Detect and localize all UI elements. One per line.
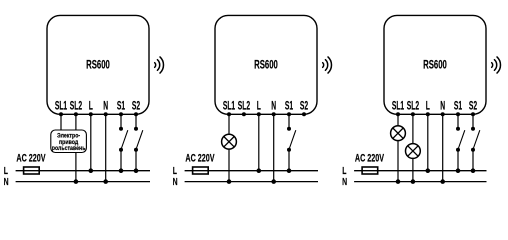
svg-text:S2: S2 xyxy=(300,98,308,111)
switch S1 blade (circuit 3) xyxy=(458,130,465,149)
junction S1/L bus (circuit 3) xyxy=(456,168,461,173)
junction S1/L bus (circuit 1) xyxy=(119,168,124,173)
svg-text:SL2: SL2 xyxy=(70,98,82,111)
svg-text:L: L xyxy=(89,98,93,111)
wire pin to lamp HL2 (circuit 3) xyxy=(397,114,399,126)
junction pin L/L bus (circuit 3) xyxy=(426,168,431,173)
module U2 RS600 body xyxy=(215,15,317,114)
svg-text:SL1: SL1 xyxy=(55,98,67,111)
wire pin S2 stub (circuit 1) xyxy=(135,114,137,128)
node S1 lower contact (circuit 2) xyxy=(287,148,291,152)
wire L bus (circuit 3) xyxy=(354,170,486,172)
wire pin S1 stub (circuit 3) xyxy=(457,114,459,128)
junction S1/L bus (circuit 2) xyxy=(287,168,292,173)
node S2 upper contact (circuit 1) xyxy=(134,127,138,131)
svg-text:L: L xyxy=(257,98,261,111)
junction pin N/N bus (circuit 2) xyxy=(271,179,276,184)
node S1 upper contact (circuit 1) xyxy=(119,127,123,131)
wire lamp HL3 to N bus (circuit 3) xyxy=(412,158,414,181)
junction pin N/N bus (circuit 1) xyxy=(103,179,108,184)
svg-text:RS600: RS600 xyxy=(86,59,110,72)
svg-text:S2: S2 xyxy=(469,98,477,111)
wire S2 to L bus (circuit 3) xyxy=(472,150,474,171)
wire S2 to L bus (circuit 1) xyxy=(135,150,137,171)
junction lamp HL2/N bus (circuit 3) xyxy=(396,179,401,184)
wire lamp HL1 to N bus (circuit 2) xyxy=(228,149,230,182)
svg-text:N: N xyxy=(4,175,9,187)
node S1 upper contact (circuit 3) xyxy=(456,127,460,131)
module U3 RS600 body xyxy=(384,15,486,114)
svg-text:S1: S1 xyxy=(454,98,462,111)
svg-text:S2: S2 xyxy=(132,98,140,111)
switch S1 blade (circuit 2) xyxy=(289,130,296,149)
node S1 lower contact (circuit 3) xyxy=(456,148,460,152)
svg-text:N: N xyxy=(440,98,445,111)
svg-text:SL2: SL2 xyxy=(238,98,250,111)
svg-text:AC 220V: AC 220V xyxy=(16,152,45,164)
wire N bus (circuit 2) xyxy=(185,181,318,183)
wire pin S1 stub (circuit 2) xyxy=(288,114,290,128)
svg-text:AC 220V: AC 220V xyxy=(185,152,214,164)
svg-text:N: N xyxy=(271,98,276,111)
svg-text:N: N xyxy=(103,98,108,111)
antenna RF-signal icon of U2 xyxy=(323,63,324,68)
junction motor M1/N bus xyxy=(74,179,79,184)
junction pin L/L bus (circuit 2) xyxy=(257,168,262,173)
wire S1 to L bus (circuit 3) xyxy=(457,150,459,171)
module U1 RS600 body xyxy=(47,15,149,114)
junction S2/L bus (circuit 3) xyxy=(471,168,476,173)
motor M1 roller-shutter drive box xyxy=(51,130,87,153)
svg-text:RS600: RS600 xyxy=(423,59,447,72)
svg-text:SL2: SL2 xyxy=(407,98,419,111)
wire pin L to L bus (circuit 1) xyxy=(90,114,92,170)
wire S1 to L bus (circuit 2) xyxy=(288,150,290,171)
fuse FU2 xyxy=(193,167,209,174)
lamp HL2 bulb (circuit 3) xyxy=(391,126,406,141)
wire S1 to L bus (circuit 1) xyxy=(120,150,122,171)
svg-text:SL1: SL1 xyxy=(223,98,235,111)
junction lamp HL1/N bus (circuit 2) xyxy=(227,179,232,184)
node S2 upper contact (circuit 3) xyxy=(471,127,475,131)
svg-text:N: N xyxy=(173,175,178,187)
node S2 lower contact (circuit 1) xyxy=(134,148,138,152)
svg-text:S1: S1 xyxy=(117,98,125,111)
wire pin SL2 to motor M1 xyxy=(75,114,77,130)
svg-text:рольставень: рольставень xyxy=(52,146,86,153)
fuse FU1 xyxy=(24,167,40,174)
wire lamp HL2 to N bus (circuit 3) xyxy=(397,141,399,182)
wire L bus (circuit 2) xyxy=(185,170,318,172)
svg-text:SL1: SL1 xyxy=(392,98,404,111)
switch S1 blade (circuit 1) xyxy=(121,130,128,149)
wire pin SL1 to motor M1 xyxy=(60,114,62,130)
junction pin N/N bus (circuit 3) xyxy=(440,179,445,184)
fuse FU3 xyxy=(362,167,378,174)
wire N bus (circuit 1) xyxy=(16,181,150,183)
wire pin to lamp HL1 (circuit 2) xyxy=(228,114,230,134)
svg-text:AC 220V: AC 220V xyxy=(355,152,384,164)
svg-text:N: N xyxy=(342,175,347,187)
antenna RF-signal icon of U1 xyxy=(155,63,156,68)
switch S2 blade (circuit 1) xyxy=(136,130,143,149)
node S1 lower contact (circuit 1) xyxy=(119,148,123,152)
junction S2/L bus (circuit 1) xyxy=(134,168,139,173)
svg-text:RS600: RS600 xyxy=(254,59,278,72)
wire pin L to L bus (circuit 3) xyxy=(427,114,429,170)
wire pin N to N bus (circuit 2) xyxy=(273,114,275,181)
node S2 lower contact (circuit 3) xyxy=(471,148,475,152)
antenna RF-signal icon of U3 xyxy=(492,63,493,68)
junction lamp HL3/N bus (circuit 3) xyxy=(411,179,416,184)
node S1 upper contact (circuit 2) xyxy=(287,127,291,131)
lamp HL3 bulb (circuit 3) xyxy=(406,144,421,159)
svg-text:S1: S1 xyxy=(285,98,293,111)
wire pin N to N bus (circuit 3) xyxy=(442,114,444,181)
wire pin to lamp HL3 (circuit 3) xyxy=(412,114,414,143)
wire L bus (circuit 1) xyxy=(16,170,150,172)
switch S2 blade (circuit 3) xyxy=(473,130,480,149)
wire pin S1 stub (circuit 1) xyxy=(120,114,122,128)
wire motor M1 to N bus xyxy=(75,153,77,182)
wire pin S2 stub (circuit 3) xyxy=(472,114,474,128)
junction pin L/L bus (circuit 1) xyxy=(89,168,94,173)
svg-text:L: L xyxy=(426,98,430,111)
wire pin L to L bus (circuit 2) xyxy=(258,114,260,170)
wire pin N to N bus (circuit 1) xyxy=(105,114,107,181)
wire N bus (circuit 3) xyxy=(354,181,486,183)
lamp HL1 bulb (circuit 2) xyxy=(222,134,237,149)
